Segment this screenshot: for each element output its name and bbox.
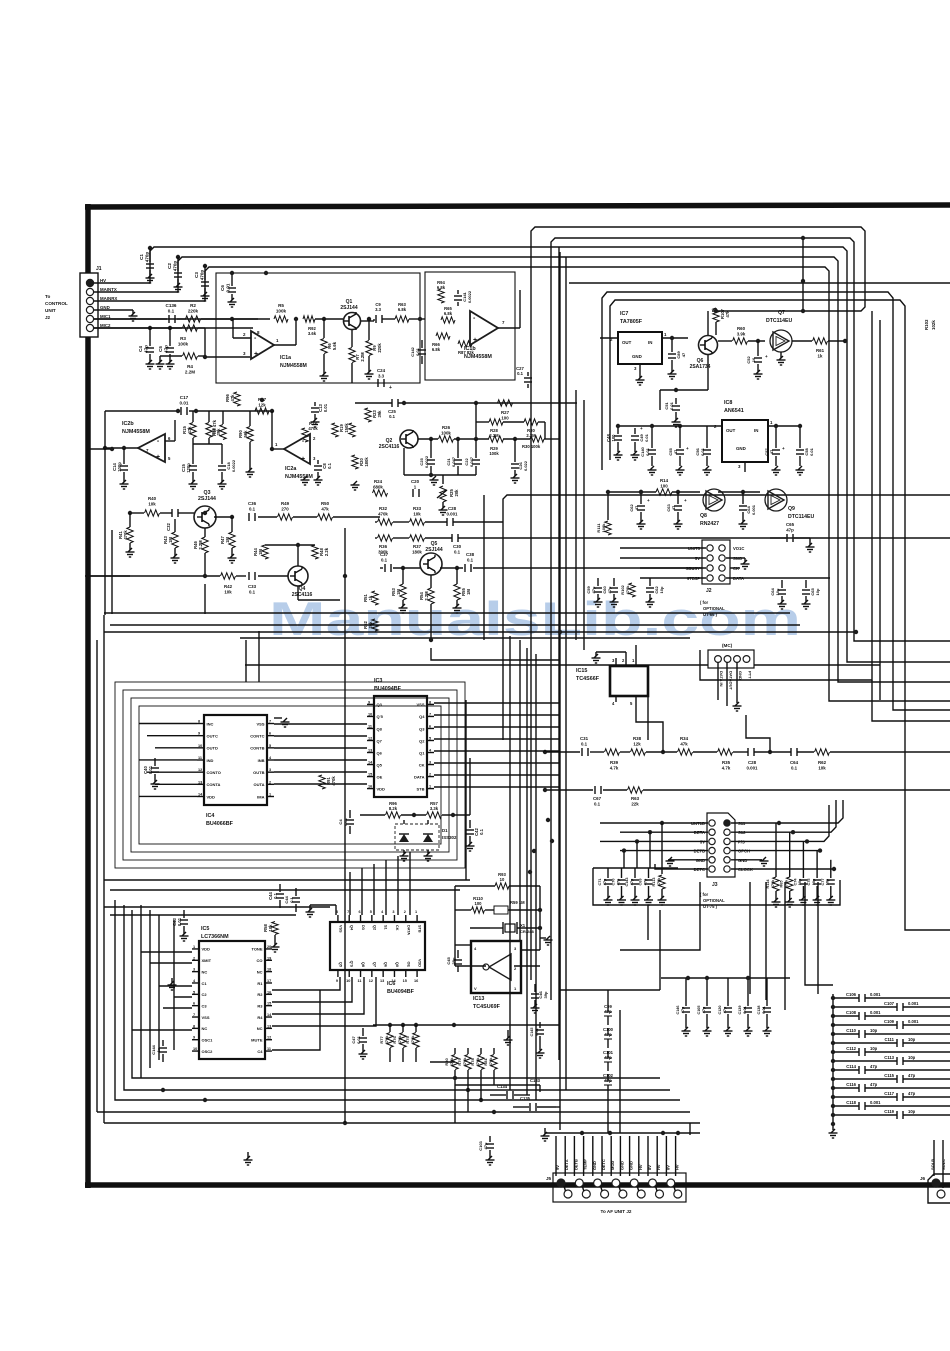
svg-text:C77: C77: [821, 879, 825, 886]
capacitor C136 0.1: [168, 315, 170, 323]
pin J6 1: [932, 1179, 940, 1187]
capacitor C59 47p: [597, 578, 599, 586]
svg-text:0.1: 0.1: [454, 549, 461, 554]
capacitor C99 47p: [607, 1005, 609, 1012]
resistor R6 5.6k: [321, 339, 327, 354]
resistor R53 1M: [400, 584, 406, 600]
resistor R51 1k: [372, 591, 378, 605]
svg-text:ManualsLib.com: ManualsLib.com: [269, 592, 801, 645]
svg-text:0.1: 0.1: [273, 892, 278, 898]
svg-text:PTT: PTT: [748, 671, 753, 679]
wire: [111, 530, 113, 614]
svg-text:R2: R2: [190, 303, 196, 308]
svg-text:+: +: [640, 426, 643, 431]
svg-text:C2: C2: [167, 263, 172, 269]
svg-text:NC: NC: [257, 969, 263, 974]
svg-text:0.001: 0.001: [908, 1019, 919, 1024]
pin J3 GND: [709, 857, 715, 863]
capacitor C56 0.01: [706, 440, 708, 448]
op-amp IC1b: [470, 311, 498, 345]
wire: [854, 625, 950, 641]
svg-text:X1: X1: [520, 923, 526, 928]
svg-text:C145: C145: [530, 1027, 534, 1036]
wire bus: [503, 495, 950, 740]
wire J5 link: [582, 1186, 584, 1191]
wire bus: [558, 247, 560, 1060]
resistor R24 680k: [373, 490, 388, 496]
svg-text:OPTIONAL: OPTIONAL: [703, 898, 725, 903]
capacitor C15 120p: [192, 438, 194, 464]
wire: [158, 915, 160, 1060]
svg-text:7: 7: [193, 1013, 195, 1017]
svg-text:C120: C120: [718, 1005, 722, 1014]
resistor R37 180k: [410, 535, 425, 541]
svg-text:OSC1: OSC1: [202, 1038, 214, 1043]
svg-text:47p: 47p: [908, 1091, 916, 1096]
wire J1 MIC1: [94, 318, 258, 320]
svg-text:C139: C139: [738, 1005, 742, 1014]
svg-text:3: 3: [269, 768, 271, 772]
svg-text:47p: 47p: [786, 527, 794, 532]
svg-text:12k: 12k: [258, 402, 266, 407]
svg-text:OUTB: OUTB: [253, 770, 264, 775]
svg-text:DTC114EU: DTC114EU: [788, 514, 814, 520]
svg-text:R5: R5: [278, 303, 284, 308]
svg-text:( for: ( for: [700, 600, 709, 605]
svg-text:Q5: Q5: [338, 962, 342, 967]
pin J5 top 5: [630, 1179, 638, 1187]
node: [203, 1098, 207, 1102]
ground ladder: [832, 1124, 834, 1130]
svg-text:0.01: 0.01: [323, 403, 328, 412]
svg-text:18: 18: [267, 968, 271, 972]
svg-text:VSS: VSS: [416, 702, 424, 707]
wire IC1a in-: [233, 337, 251, 339]
wire MC1 gnd: [736, 662, 738, 703]
resistor R52 20k: [372, 619, 378, 631]
wire bus: [531, 227, 865, 980]
svg-text:2SC4116: 2SC4116: [379, 444, 400, 450]
resistor R114 470k: [773, 877, 779, 891]
wire: [905, 900, 950, 930]
svg-text:0.1: 0.1: [289, 896, 294, 902]
svg-text:ISS302: ISS302: [442, 835, 457, 840]
svg-text:IC6: IC6: [387, 981, 395, 987]
capacitor C47 0.01: [362, 1028, 364, 1036]
svg-text:NC: NC: [257, 1026, 263, 1031]
wire IC2b net: [165, 440, 175, 442]
capacitor C8 0.1: [317, 460, 319, 464]
svg-text:R33: R33: [413, 506, 422, 511]
svg-text:RN2427: RN2427: [700, 521, 719, 527]
svg-text:C24: C24: [377, 368, 386, 373]
pin J2 DATA: [719, 575, 725, 581]
svg-text:10k: 10k: [413, 511, 421, 516]
svg-text:BU4094BF: BU4094BF: [387, 989, 415, 995]
svg-text:100: 100: [475, 901, 483, 906]
wire q2 pot: [442, 475, 444, 484]
pin J3 UNT1D: [709, 820, 715, 826]
svg-text:47p: 47p: [908, 1073, 916, 1078]
svg-text:STB: STB: [417, 786, 425, 791]
svg-text:10: 10: [500, 877, 505, 882]
pin MC1 DATAOUT: [724, 656, 731, 663]
capacitor C40 0.01: [154, 758, 156, 766]
wire bus: [178, 257, 838, 660]
svg-text:12: 12: [369, 979, 373, 983]
svg-text:R4: R4: [187, 364, 193, 369]
svg-text:3.3: 3.3: [378, 373, 385, 378]
wire capcol: [607, 990, 609, 1005]
svg-text:Q0: Q0: [395, 962, 399, 967]
svg-text:C37: C37: [380, 552, 389, 557]
svg-text:R113: R113: [652, 878, 656, 887]
svg-text:MAINRX: MAINRX: [100, 296, 117, 301]
resistor R57 3.3k: [427, 812, 442, 818]
svg-text:9: 9: [193, 1036, 195, 1040]
capacitor C115 47p: [833, 1078, 897, 1080]
wire IC6-IC5 c4: [272, 990, 320, 1050]
capacitor C21 0.047: [457, 439, 459, 458]
transistor Q9 DTC114EU: [768, 491, 784, 509]
wire row main: [545, 751, 580, 753]
wire J5 feed: [555, 1136, 557, 1176]
svg-text:5: 5: [429, 736, 431, 740]
svg-text:C119: C119: [884, 1109, 894, 1114]
wire: [469, 758, 471, 815]
svg-text:47p: 47p: [702, 1006, 706, 1013]
svg-text:1: 1: [429, 785, 431, 789]
wire MIC1 node: [94, 318, 167, 320]
wire Q1 drain: [361, 320, 374, 322]
svg-text:3: 3: [429, 761, 431, 765]
wire Q3 row: [130, 512, 144, 514]
crystal X1 CR-288: [505, 924, 515, 932]
svg-text:GND: GND: [738, 671, 743, 680]
svg-text:OUTA: OUTA: [253, 782, 264, 787]
capacitor C120 47p: [727, 978, 729, 1006]
svg-text:47: 47: [681, 352, 686, 357]
capacitor C44c 0.1: [295, 888, 297, 896]
svg-text:IC3: IC3: [374, 678, 382, 684]
svg-text:IC1a: IC1a: [280, 355, 291, 361]
capacitor C17 0.01: [180, 407, 182, 415]
resistor R93 10: [495, 883, 509, 889]
svg-text:1: 1: [415, 910, 417, 914]
svg-text:0.1: 0.1: [581, 741, 588, 746]
svg-text:C112: C112: [846, 1046, 856, 1051]
svg-text:47k: 47k: [230, 394, 235, 402]
border frame top: [85, 205, 950, 207]
svg-text:47k: 47k: [321, 506, 329, 511]
resistor R27 100: [498, 400, 513, 406]
svg-text:3: 3: [193, 968, 195, 972]
wire: [784, 882, 786, 1010]
svg-text:220k: 220k: [188, 309, 199, 314]
svg-text:C65: C65: [786, 522, 795, 527]
capacitor C6 0.01: [231, 273, 233, 286]
wire J5 link: [601, 1186, 603, 1191]
pin J1 MAINRX: [86, 297, 93, 304]
capacitor C26 0.022: [514, 439, 516, 462]
svg-text:Q3: Q3: [377, 702, 383, 707]
node: [260, 398, 264, 402]
capacitor C134 0.1: [506, 1091, 508, 1099]
capacitor C142 0.01: [421, 340, 423, 348]
svg-text:VSS: VSS: [338, 925, 342, 933]
svg-text:0.1: 0.1: [389, 414, 395, 419]
pin J5 bottom 6: [656, 1190, 664, 1198]
svg-text:D1: D1: [442, 828, 448, 833]
resistor R75 470k: [413, 1033, 419, 1048]
svg-text:D3: D3: [361, 925, 365, 930]
svg-text:IN: IN: [754, 428, 758, 433]
svg-text:680k: 680k: [373, 484, 383, 489]
svg-text:470k: 470k: [410, 1035, 415, 1045]
svg-text:IC13: IC13: [473, 996, 484, 1002]
svg-text:7: 7: [347, 910, 349, 914]
svg-text:5: 5: [269, 744, 271, 748]
capacitor C138 0.01: [766, 978, 768, 1006]
wire bus: [565, 257, 567, 1090]
svg-text:C146: C146: [676, 1005, 680, 1014]
svg-text:VDD: VDD: [377, 786, 386, 791]
wire J1 MAINTX: [94, 291, 178, 293]
wire: [893, 690, 950, 710]
wire: [104, 906, 330, 908]
svg-text:2.2M: 2.2M: [198, 540, 203, 550]
svg-text:+: +: [647, 498, 650, 503]
resistor R78 470k: [478, 1055, 484, 1070]
wire: [805, 882, 833, 985]
svg-text:CONTC: CONTC: [250, 733, 264, 738]
wire IC4 left stub: [139, 795, 197, 797]
svg-text:0.1: 0.1: [249, 589, 256, 594]
svg-text:20k: 20k: [368, 621, 373, 629]
svg-text:J1: J1: [96, 266, 102, 272]
node: [532, 849, 536, 853]
pin IC13 left: [455, 965, 486, 967]
svg-text:Q'S: Q'S: [350, 961, 354, 968]
border frame bottom: [85, 1182, 950, 1188]
svg-text:2.2M: 2.2M: [360, 352, 365, 362]
capacitor C107 0.001: [833, 1006, 897, 1008]
capacitor C24 3.3: [377, 379, 379, 387]
resistor R65 6.8k: [441, 317, 455, 323]
resistor R63b 22k: [628, 787, 643, 793]
resistor R22 150k: [349, 423, 355, 437]
pin J3 DETA: [709, 829, 715, 835]
capacitor C64 0.001: [742, 492, 744, 504]
wire Q1 gate: [315, 318, 343, 320]
capacitor C116 47p: [833, 1087, 859, 1089]
svg-text:Q8: Q8: [361, 962, 365, 967]
svg-text:2.2k: 2.2k: [324, 547, 329, 556]
svg-text:C109: C109: [884, 1019, 895, 1024]
svg-text:6: 6: [193, 1002, 195, 1006]
wire q2 rail: [404, 474, 476, 476]
node: [492, 1110, 496, 1114]
capacitor C105 47p: [706, 978, 708, 1006]
svg-text:TONE: TONE: [251, 947, 262, 952]
capacitor C146 47p: [685, 978, 687, 1006]
wire IC4-IC3: [274, 783, 367, 785]
capacitor C30 0.1: [451, 534, 453, 542]
capacitor C32: [171, 509, 173, 517]
wire: [519, 640, 521, 940]
svg-text:0.0022: 0.0022: [231, 459, 236, 472]
svg-text:0.01: 0.01: [415, 347, 420, 356]
resistor R46 2.2M: [202, 537, 208, 553]
svg-text:C38: C38: [466, 552, 475, 557]
resistor R80 470k: [452, 1055, 458, 1070]
wire bank rail: [373, 1024, 560, 1026]
resistor R48 2.2k: [312, 545, 318, 559]
wire bus: [551, 238, 854, 1000]
capacitor C89 47: [671, 338, 673, 352]
svg-text:100k: 100k: [601, 523, 606, 533]
pin J5 top 4: [612, 1179, 620, 1187]
svg-text:R14: R14: [660, 478, 669, 483]
wire: [832, 993, 834, 995]
svg-text:2.2M: 2.2M: [185, 370, 195, 375]
capacitor C25c 0.1: [391, 399, 393, 407]
wire: [430, 1061, 455, 1063]
capacitor C140 0.01: [651, 440, 653, 448]
svg-text:180k: 180k: [364, 457, 369, 467]
wire Q4 coll: [297, 545, 299, 566]
IC U IC6 BU4094BF: [330, 922, 425, 970]
svg-text:C118: C118: [846, 1100, 856, 1105]
svg-text:39k: 39k: [377, 410, 382, 418]
capacitor C4 47p: [148, 326, 152, 330]
resistor R4 2.2M: [183, 353, 198, 359]
wire: [245, 640, 247, 682]
capacitor C145 0.01: [539, 1022, 541, 1028]
svg-text:C114: C114: [846, 1064, 856, 1069]
svg-text:C36: C36: [248, 501, 257, 506]
resistor R50 47k: [318, 514, 333, 520]
pin J5 top 1: [557, 1179, 565, 1187]
wire IC2b out: [105, 447, 138, 449]
wire Q6 top: [707, 311, 709, 335]
svg-text:9: 9: [198, 732, 200, 736]
svg-text:9: 9: [368, 700, 370, 704]
svg-text:Q7: Q7: [372, 962, 376, 967]
svg-text:0.001: 0.001: [447, 511, 459, 516]
svg-text:R65: R65: [780, 881, 784, 888]
svg-text:CK: CK: [419, 762, 425, 767]
capacitor C48 100: [617, 428, 619, 434]
wire IC1b out: [498, 327, 520, 329]
wire IC4-IC3: [274, 759, 367, 761]
svg-text:1M: 1M: [396, 589, 401, 595]
svg-text:R59 1M: R59 1M: [510, 900, 525, 905]
svg-text:C3: C3: [202, 1003, 208, 1008]
svg-text:0.1: 0.1: [791, 765, 798, 770]
pin J2 SBUSY: [707, 565, 713, 571]
svg-text:0.01: 0.01: [644, 433, 649, 442]
svg-text:47p: 47p: [870, 1082, 878, 1087]
wire: [149, 910, 151, 1068]
capacitor C62 47: [640, 492, 642, 504]
connector J5: [553, 1173, 686, 1202]
svg-text:VSS: VSS: [202, 1015, 210, 1020]
svg-text:C1: C1: [139, 254, 144, 260]
svg-text:+: +: [686, 446, 689, 451]
svg-text:NC: NC: [202, 969, 208, 974]
svg-text:+: +: [782, 446, 785, 451]
svg-text:+: +: [473, 337, 477, 344]
wire IC3 right: [434, 738, 560, 740]
svg-text:6.8k: 6.8k: [444, 311, 453, 316]
pin J3 S11: [724, 820, 730, 826]
wire Q3 out row: [258, 516, 277, 518]
svg-text:12: 12: [198, 768, 202, 772]
capacitor C64c 0.1: [790, 748, 792, 756]
svg-text:V: V: [474, 986, 477, 991]
wire: [204, 584, 206, 614]
svg-text:0.01: 0.01: [809, 447, 814, 456]
svg-text:100k: 100k: [276, 309, 287, 314]
svg-text:6: 6: [429, 724, 431, 728]
svg-text:OE: OE: [377, 774, 383, 779]
capacitor C27 0.1: [527, 372, 529, 376]
svg-text:470k: 470k: [397, 1035, 402, 1045]
capacitor C13 0.01: [314, 402, 316, 406]
resistor R58 10k: [272, 922, 278, 935]
resistor R5 100k: [274, 316, 288, 322]
svg-text:39p: 39p: [543, 991, 548, 998]
node: [203, 511, 207, 515]
svg-text:100: 100: [611, 434, 616, 442]
svg-text:470k: 470k: [378, 511, 388, 516]
pin J2 UNIT5: [707, 545, 713, 551]
capacitor C119 10p: [833, 1114, 897, 1116]
wire: [560, 989, 660, 991]
svg-text:470k: 470k: [657, 877, 661, 886]
capacitor C28b 0.001: [747, 748, 749, 756]
ground J1: [129, 315, 138, 317]
svg-text:UNIT: UNIT: [45, 308, 56, 313]
capacitor C71 47p: [607, 868, 609, 878]
wire J5 feed: [675, 1136, 677, 1176]
resistor R26 100k: [439, 436, 454, 442]
connector J3: [707, 813, 735, 877]
svg-text:UT-66 ): UT-66 ): [703, 612, 718, 617]
svg-text:6.8k: 6.8k: [398, 307, 407, 312]
svg-text:C110: C110: [846, 1028, 856, 1033]
svg-text:5: 5: [370, 910, 372, 914]
svg-text:C5: C5: [158, 346, 163, 352]
wire J5 feed: [573, 1136, 575, 1176]
svg-text:R4: R4: [257, 1015, 263, 1020]
capacitor C31 0.1: [581, 748, 583, 756]
svg-text:10p: 10p: [908, 1037, 916, 1042]
svg-text:100k: 100k: [178, 342, 189, 347]
resistor R2 220k: [186, 316, 201, 322]
wire IC2a out: [272, 448, 284, 450]
wire: [575, 390, 577, 640]
svg-text:IC8: IC8: [724, 400, 732, 406]
capacitor C3 470p: [203, 264, 207, 268]
svg-text:MUTE: MUTE: [251, 1038, 263, 1043]
svg-text:R103: R103: [924, 319, 929, 330]
wire IC3 right: [434, 702, 560, 704]
svg-text:10p: 10p: [870, 1046, 878, 1051]
wire J1 GND: [94, 309, 133, 311]
pin J3 P/S: [724, 838, 730, 844]
